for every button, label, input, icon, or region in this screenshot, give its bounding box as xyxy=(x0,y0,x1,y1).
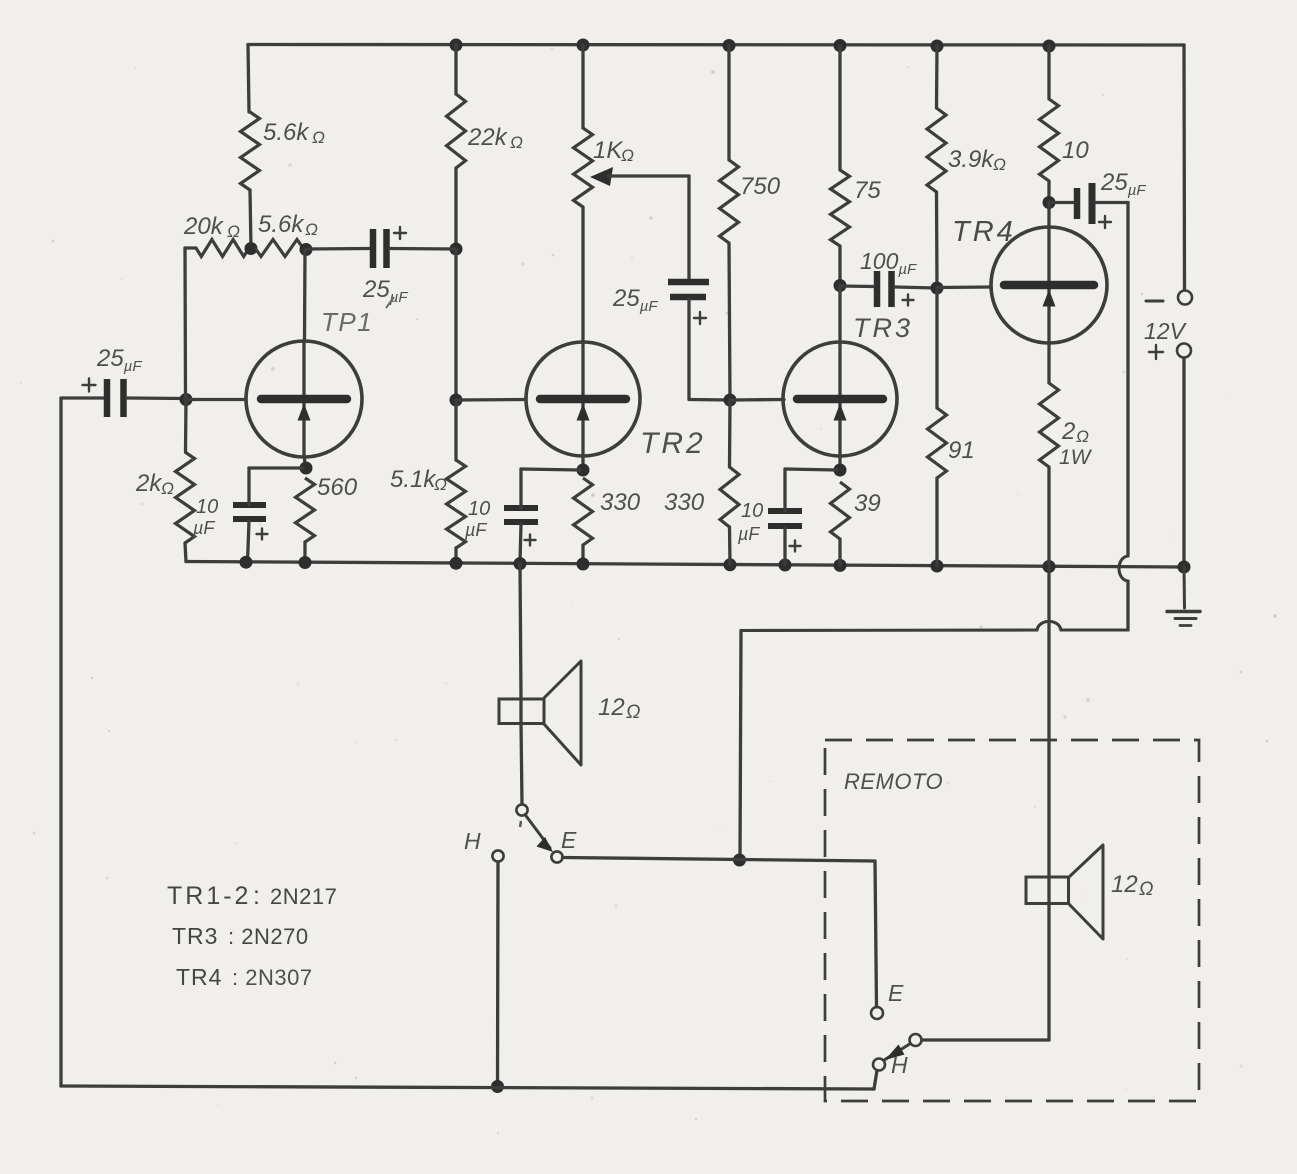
label 22k xyxy=(467,124,523,152)
wire remote speaker to corner xyxy=(1047,904,1050,1041)
junction bottom rail at 2ohm xyxy=(1043,560,1056,573)
wire TR3 base lead xyxy=(730,398,784,402)
wire top supply rail xyxy=(248,43,1184,47)
transistor TR1 xyxy=(246,341,362,457)
svg-text:E: E xyxy=(888,980,904,1006)
resistor 3.9k xyxy=(927,108,946,192)
wire R2k to bottom rail corner xyxy=(185,543,186,562)
junction bottom rail at 91 xyxy=(931,560,944,573)
svg-text:: 2N270: : 2N270 xyxy=(228,924,309,949)
label 2k xyxy=(135,470,174,498)
wire remote speaker through xyxy=(1047,877,1050,903)
terminal minus 12V xyxy=(1178,291,1192,305)
junction bottom rail at right rail xyxy=(1178,561,1191,574)
label 25uF input xyxy=(96,345,142,375)
wire from top rail to R 5.6k xyxy=(248,45,249,113)
svg-text:39: 39 xyxy=(854,490,881,517)
capacitor 10uF TR1 bypass plate1 xyxy=(233,502,266,508)
svg-text:5.6k: 5.6k xyxy=(263,119,310,146)
label plus sign xyxy=(1149,345,1163,359)
junction TR1 emitter node xyxy=(300,462,313,475)
wire hop over bottom rail xyxy=(1119,556,1128,581)
svg-text::: : xyxy=(253,882,260,910)
label 25uF coupling xyxy=(612,285,658,315)
wire output horizontal with hop xyxy=(741,621,1128,630)
svg-text:TR3: TR3 xyxy=(853,313,913,343)
wire corner to remote pivot xyxy=(922,1038,1049,1041)
svg-text:Ω: Ω xyxy=(434,475,447,494)
wire R39 to bottom rail xyxy=(838,539,841,565)
junction TR4 base node xyxy=(931,282,944,295)
svg-text:E: E xyxy=(561,827,577,853)
wire TR2 emitter lead xyxy=(581,456,584,470)
capacitor 25uF TR1 out plate2 xyxy=(383,229,390,268)
label plus TR1 out cap xyxy=(394,227,406,239)
speaker main frame xyxy=(499,699,544,724)
junction top rail at 1k xyxy=(577,39,590,52)
capacitor 100uF plate2 xyxy=(888,271,895,307)
wire cap to TR3 base node xyxy=(689,299,730,400)
svg-text:10: 10 xyxy=(741,500,763,522)
label plus 10uF TR2 xyxy=(525,535,536,546)
svg-text:560: 560 xyxy=(317,474,358,501)
wire E contact to remote xyxy=(563,858,877,1008)
wire 100uF to TR4 base node xyxy=(895,287,937,288)
junction top rail at 750 xyxy=(723,39,736,52)
wire output riser upper xyxy=(1126,203,1129,557)
svg-text:Ω: Ω xyxy=(993,155,1006,174)
svg-text:750: 750 xyxy=(740,173,781,200)
wire 10uF TR3 top lead xyxy=(785,469,837,511)
capacitor 10uF TR3 bypass plate2 xyxy=(768,523,802,529)
label 10uF TR2 xyxy=(464,498,490,540)
wire TR1 emitter lead xyxy=(303,457,307,468)
wire R750 to TR3 base node xyxy=(729,243,730,400)
label 39 xyxy=(854,490,881,517)
capacitor 25uF output plate1 xyxy=(1074,188,1081,219)
svg-text:µF: µF xyxy=(192,518,215,538)
junction TR3 collector/cap node xyxy=(834,279,847,292)
junction bottom rail at 330b xyxy=(724,558,737,571)
capacitor 10uF TR1 bypass plate2 xyxy=(233,516,266,522)
junction bottom rail at 10uF TR3 xyxy=(779,559,792,572)
wire R91 to bottom rail xyxy=(935,478,938,566)
label plus 100uF xyxy=(903,295,914,306)
label 2ohm 1W xyxy=(1059,418,1093,469)
junction bottom loop at H xyxy=(491,1080,504,1093)
svg-text:12: 12 xyxy=(598,694,625,721)
label 12ohm main xyxy=(598,694,640,723)
junction 20k/5.6k node xyxy=(245,242,258,255)
wire R22k down to cap node xyxy=(454,168,457,249)
svg-text:5.1k: 5.1k xyxy=(390,466,437,493)
label 25uF TR1 out xyxy=(362,276,408,306)
svg-text:Ω: Ω xyxy=(626,702,640,723)
svg-text:Ω: Ω xyxy=(1139,879,1153,900)
junction bottom rail at 5.1k xyxy=(450,557,463,570)
resistor 1k potentiometer xyxy=(574,128,593,207)
svg-text:91: 91 xyxy=(948,437,975,464)
wire R3.9k to TR4 base node xyxy=(935,192,939,288)
switch main lever xyxy=(525,815,553,853)
switch remote lever xyxy=(885,1044,911,1061)
resistor 20k horizontal xyxy=(185,240,249,257)
junction bottom rail at speaker feed xyxy=(514,557,527,570)
wire R1k to TR2 collector xyxy=(581,207,584,342)
svg-text:1K: 1K xyxy=(593,137,623,164)
wire cap node to TR3 xyxy=(838,285,841,342)
svg-text:Ω: Ω xyxy=(1076,427,1089,446)
wire TR2 base node to R5.1k xyxy=(454,400,457,460)
pot wiper arrow xyxy=(590,167,689,186)
junction TR2 base tap xyxy=(450,394,463,407)
label minus sign xyxy=(1146,300,1163,303)
wire collector node to output cap xyxy=(1049,201,1073,204)
wire input cap to base node xyxy=(127,396,186,400)
wire bottom ground rail xyxy=(186,562,1184,568)
wire output cap to feedback riser xyxy=(1096,201,1128,204)
label 5.6k xyxy=(263,119,325,147)
svg-text:2k: 2k xyxy=(135,470,163,497)
label TP1 xyxy=(321,307,373,337)
junction TR4 collector node xyxy=(1043,196,1056,209)
svg-text:1W: 1W xyxy=(1059,446,1093,469)
wire R5.6k to divider node xyxy=(250,190,251,249)
label TR2 xyxy=(640,427,706,460)
svg-text:H: H xyxy=(891,1052,908,1078)
junction TR3 emitter node xyxy=(834,464,847,477)
transistor TR2 xyxy=(526,342,640,456)
wire output riser lower xyxy=(1126,581,1129,630)
switch main contact H xyxy=(492,850,503,861)
svg-text:330: 330 xyxy=(600,489,641,516)
wire top rail to R22k xyxy=(454,45,457,94)
svg-text:12: 12 xyxy=(1111,871,1138,898)
wire input left stub xyxy=(61,396,104,399)
resistor 75 xyxy=(831,170,850,246)
label plus 10uF TR1 xyxy=(257,529,268,540)
svg-text:10: 10 xyxy=(468,498,490,520)
wire TR3 emitter lead xyxy=(838,456,841,470)
wire top rail to R1k xyxy=(581,45,584,128)
label 100uF xyxy=(860,248,917,278)
svg-text:22k: 22k xyxy=(467,124,509,151)
capacitor 10uF TR2 bypass plate2 xyxy=(504,519,538,525)
wire output drop to E node xyxy=(740,631,741,861)
wire collector node to cap xyxy=(306,247,369,251)
capacitor 10uF TR2 bypass plate1 xyxy=(504,505,538,511)
junction TR1 collector node xyxy=(300,243,313,256)
label TR3 2N270 xyxy=(172,923,309,949)
label 20k xyxy=(183,213,240,241)
label E main xyxy=(561,827,577,853)
label H remote xyxy=(891,1052,908,1078)
wire TR4 emitter lead xyxy=(1047,343,1050,383)
svg-text:Ω: Ω xyxy=(621,146,634,165)
svg-text:330: 330 xyxy=(664,489,705,516)
resistor 22k xyxy=(447,94,466,168)
svg-text:TR1-2: TR1-2 xyxy=(167,882,251,910)
junction TR3 base node xyxy=(724,394,737,407)
wire H contact drop xyxy=(496,862,500,1087)
capacitor 100uF plate1 xyxy=(874,271,881,307)
label 560 xyxy=(317,474,358,501)
capacitor 25uF coupling TR2-TR3 plate1 xyxy=(668,279,709,286)
resistor 330 TR2 emitter xyxy=(574,478,593,545)
wire cap node to 100uF xyxy=(840,284,873,288)
svg-text:75: 75 xyxy=(854,177,881,204)
junction top rail at 22k xyxy=(450,39,463,52)
resistor 560 xyxy=(296,478,315,542)
svg-text:TR2: TR2 xyxy=(640,427,706,460)
wire 10uF TR1 bottom lead xyxy=(248,521,250,562)
capacitor 25uF output plate2 xyxy=(1089,183,1096,224)
wire rail down to remote speaker xyxy=(1047,567,1050,878)
resistor 5.6k vertical xyxy=(241,112,260,190)
label 3.9k xyxy=(948,146,1006,174)
svg-text:Ω: Ω xyxy=(227,222,240,241)
svg-text:Ω: Ω xyxy=(305,220,318,239)
wire pot wiper riser xyxy=(687,176,690,279)
svg-text:REMOTO: REMOTO xyxy=(844,769,943,794)
svg-text:20k: 20k xyxy=(183,213,225,240)
junction 22k/cap node xyxy=(450,243,463,256)
wire TR1 collector lead xyxy=(303,250,307,341)
stray pencil tick near TP1 xyxy=(386,297,394,308)
wire right rail upper xyxy=(1182,45,1186,290)
wire 10uF TR2 bottom lead xyxy=(520,524,521,562)
ground symbol xyxy=(1167,567,1200,626)
capacitor 25uF TR1 out plate1 xyxy=(370,229,377,268)
svg-text:Ω: Ω xyxy=(161,479,174,498)
capacitor 25uF coupling plate2 xyxy=(670,294,706,301)
wire bottom loop to remote H xyxy=(874,1071,877,1090)
wire TR2 base lead xyxy=(456,398,526,402)
svg-text:Ω: Ω xyxy=(510,133,523,152)
label plus output cap xyxy=(1099,216,1111,228)
label TR1-2 2N217 xyxy=(167,882,337,910)
resistor 10 xyxy=(1040,99,1059,181)
svg-text:Ω: Ω xyxy=(312,128,325,147)
label plus 10uF TR3 xyxy=(790,541,801,552)
svg-text:2: 2 xyxy=(1061,418,1075,445)
svg-text:TR4: TR4 xyxy=(176,964,222,990)
wire R75 to cap node xyxy=(838,246,841,285)
resistor 750 xyxy=(720,160,739,243)
wire R330 to bottom rail xyxy=(581,545,584,563)
svg-text:10: 10 xyxy=(1062,137,1089,164)
switch main contact E xyxy=(551,851,562,862)
switch main pivot contact xyxy=(516,804,527,815)
wire 10uF TR1 top lead xyxy=(249,468,303,505)
svg-text:5.6k: 5.6k xyxy=(258,211,305,238)
capacitor 10uF TR3 bypass plate1 xyxy=(768,508,802,514)
wire base node to R2k xyxy=(184,400,188,452)
wire bottom rail to speaker xyxy=(520,564,521,699)
label 10uF TR1 xyxy=(192,496,218,538)
wire collector node to TR4 xyxy=(1047,202,1050,228)
label 12ohm remote xyxy=(1111,871,1153,900)
label 10uF TR3 xyxy=(737,500,763,544)
wire top rail to R3.9k xyxy=(935,46,939,108)
wire R5.1k to bottom rail xyxy=(454,548,457,563)
wire TR4 base node to R91 xyxy=(935,288,938,408)
svg-text:12V: 12V xyxy=(1144,318,1188,344)
junction top rail at 75 xyxy=(834,39,847,52)
svg-text:2N217: 2N217 xyxy=(270,884,337,909)
label 750 xyxy=(740,173,781,200)
wire speaker to switch xyxy=(521,723,522,804)
svg-text:3.9k: 3.9k xyxy=(948,146,995,173)
wire top rail to R750 xyxy=(727,46,730,161)
remote box dashed xyxy=(825,740,1199,1101)
svg-text:µF: µF xyxy=(737,524,760,544)
label TR4 xyxy=(952,216,1016,248)
wire top rail to R10 xyxy=(1047,46,1050,99)
speaker remote horn xyxy=(1069,845,1104,939)
label 1K xyxy=(593,137,634,165)
resistor 5.1k xyxy=(447,460,466,548)
wire cap node to TR2 base node xyxy=(454,249,457,400)
label plus coupling cap xyxy=(694,312,706,324)
label 330 first xyxy=(600,489,641,516)
wire base node riser xyxy=(183,248,187,399)
resistor 2k xyxy=(176,452,195,543)
wire top rail to R75 xyxy=(838,46,841,171)
wire right rail lower xyxy=(1182,358,1185,567)
switch remote contact E xyxy=(871,1007,883,1019)
label 5.6k horizontal xyxy=(258,211,318,239)
wire R330b to bottom rail xyxy=(728,527,732,565)
junction top rail at 10 xyxy=(1043,40,1056,53)
label 91 xyxy=(948,437,975,464)
wire bottom loop horizontal xyxy=(61,1086,874,1089)
label 5.1k xyxy=(390,466,447,494)
label TR4 2N307 xyxy=(176,964,313,990)
switch remote pivot contact xyxy=(910,1034,922,1046)
label 12V xyxy=(1144,318,1188,344)
junction bottom rail at 560 xyxy=(299,556,312,569)
junction TR2 emitter node xyxy=(577,464,590,477)
label plus input cap xyxy=(83,379,96,392)
speaker main horn xyxy=(544,661,581,765)
label 10 xyxy=(1062,137,1089,164)
terminal plus 12V xyxy=(1177,344,1191,358)
wire 10uF TR2 top lead xyxy=(521,469,580,508)
label 25uF output xyxy=(1100,169,1146,199)
wire cap to 22k node xyxy=(390,247,456,251)
label H main xyxy=(464,828,481,854)
svg-text:TR4: TR4 xyxy=(952,216,1016,248)
wire R560 to bottom rail xyxy=(303,542,306,562)
svg-text:TR3: TR3 xyxy=(172,923,218,949)
speaker remote frame xyxy=(1026,877,1069,904)
label TR3 xyxy=(853,313,913,343)
junction bottom rail at 2k xyxy=(240,556,253,569)
svg-text:µF: µF xyxy=(464,520,487,540)
wire TR4 base lead xyxy=(937,285,991,289)
svg-text:10: 10 xyxy=(196,496,218,518)
wire input down left side xyxy=(59,398,62,1086)
label 75 xyxy=(854,177,881,204)
junction TR1 base node xyxy=(180,393,193,406)
wire TR1 base lead xyxy=(186,398,246,401)
transistor TR4 xyxy=(991,227,1107,343)
resistor 2ohm xyxy=(1040,383,1059,467)
junction bottom rail at 39 xyxy=(834,559,847,572)
wire 10uF TR3 bottom lead xyxy=(783,528,786,565)
transistor TR3 xyxy=(783,342,897,456)
wire TR3 base node to R330b xyxy=(728,400,732,467)
wire speaker through xyxy=(519,699,522,723)
junction bottom rail at 330a xyxy=(577,558,590,571)
svg-text:TP1: TP1 xyxy=(321,307,373,337)
label 330 second xyxy=(664,489,705,516)
svg-text:: 2N307: : 2N307 xyxy=(232,965,313,990)
stray tick below main switch pivot xyxy=(520,821,521,827)
resistor 39 xyxy=(831,482,850,539)
wire R10 to TR4 collector node xyxy=(1047,181,1050,202)
svg-text:H: H xyxy=(464,828,481,854)
resistor 330 second xyxy=(720,467,739,527)
wire R2ohm to bottom rail xyxy=(1047,467,1050,566)
capacitor 25uF input plate2 xyxy=(120,379,127,417)
capacitor 25uF input plate1 xyxy=(104,379,111,417)
label REMOTO xyxy=(844,769,943,794)
resistor 91 xyxy=(928,408,947,478)
junction E-line node xyxy=(733,854,746,867)
junction top rail at 3.9k xyxy=(931,40,944,53)
switch remote contact H xyxy=(873,1059,885,1071)
label E remote xyxy=(888,980,904,1006)
resistor 5.6k horizontal xyxy=(255,240,303,257)
